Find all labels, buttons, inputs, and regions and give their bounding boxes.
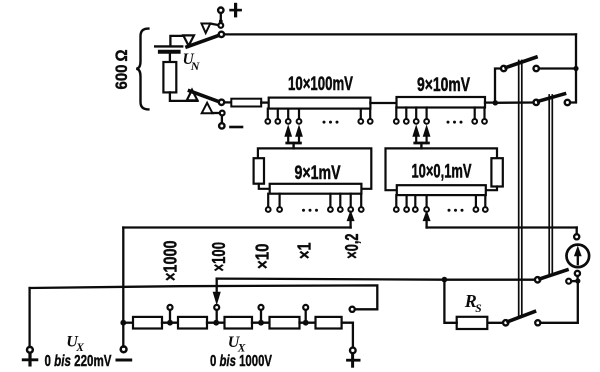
wire bbox=[162, 322, 178, 324]
dots chain C bbox=[302, 209, 318, 212]
wire bbox=[224, 101, 231, 103]
svg-text:10×0,1mV: 10×0,1mV bbox=[412, 162, 472, 183]
resistor chain 9x10mV bbox=[397, 97, 486, 108]
plug triangle top bbox=[202, 24, 211, 34]
wire line A tap to galvo switch bbox=[217, 279, 535, 280]
wire bbox=[495, 69, 501, 103]
battery UN plate long bbox=[155, 45, 182, 47]
wire bbox=[485, 101, 495, 103]
label 10x100mV bbox=[288, 73, 353, 95]
node plus terminal 220mV bbox=[27, 347, 33, 353]
battery UN plate short bbox=[160, 50, 179, 54]
label UN bbox=[183, 51, 201, 73]
label x0,2 bbox=[342, 234, 362, 259]
node S3 contact bbox=[534, 66, 539, 71]
label 10x0,1mV bbox=[412, 162, 472, 183]
label 9x1mV bbox=[295, 163, 341, 184]
resistor frame2 bbox=[491, 158, 502, 186]
label x1 bbox=[295, 243, 315, 260]
wire bbox=[211, 24, 219, 25]
svg-text:0 bis 1000V: 0 bis 1000V bbox=[210, 353, 272, 370]
junction bbox=[303, 320, 309, 326]
wire bbox=[252, 322, 270, 324]
svg-text:×10: ×10 bbox=[253, 244, 273, 270]
plus label top bbox=[231, 9, 241, 12]
plug triangle battery bottom bbox=[187, 90, 198, 101]
svg-text:N: N bbox=[190, 59, 201, 73]
minus label bottom bbox=[117, 359, 131, 362]
switch S4 blade bbox=[539, 94, 565, 101]
wire bbox=[207, 322, 225, 324]
switch S1 blade bbox=[187, 36, 218, 47]
plus label 220mV bbox=[23, 358, 37, 361]
mechanical rod right bbox=[548, 95, 550, 275]
switch S6 blade RS bbox=[508, 312, 535, 322]
switch S6 pivot bbox=[503, 320, 508, 325]
switch S5 pivot bbox=[535, 277, 540, 282]
node + terminal (top) bbox=[218, 8, 223, 13]
tap x1000 bbox=[169, 310, 171, 320]
svg-text:S: S bbox=[475, 303, 481, 315]
node galvanometer bottom bbox=[575, 271, 580, 276]
dots chain D bbox=[448, 209, 464, 212]
wiper arrow chain D bbox=[425, 220, 427, 228]
wiper arrows chain A bbox=[287, 131, 289, 144]
switch S1 pivot bbox=[219, 32, 224, 37]
node galvanometer top bbox=[574, 234, 579, 239]
resistor chain 9x1mV bbox=[270, 184, 362, 194]
node plug contact top bbox=[218, 23, 223, 28]
resistor D2 bbox=[178, 317, 207, 329]
wire galvo down to RS switch bbox=[540, 281, 577, 323]
junction bbox=[575, 278, 580, 283]
tap x1 bbox=[305, 310, 307, 320]
switch S3 blade bbox=[506, 57, 536, 67]
junction chain left bbox=[120, 320, 126, 326]
svg-text:0 bis 220mV: 0 bis 220mV bbox=[45, 353, 112, 370]
plug triangle bottom minus bbox=[202, 103, 213, 113]
minus label bbox=[231, 126, 243, 129]
wire bbox=[539, 67, 576, 69]
node galvo switch contact bbox=[566, 279, 571, 284]
wire bbox=[495, 101, 533, 104]
resistor chain 10x100mV bbox=[269, 98, 371, 109]
resistor RS bbox=[457, 317, 488, 329]
resistor D1 bbox=[133, 317, 162, 329]
switch S2 blade bbox=[190, 91, 219, 102]
wire top rail bbox=[224, 33, 576, 35]
wire bbox=[300, 322, 316, 324]
wire right top bbox=[570, 34, 576, 102]
wire bbox=[170, 92, 198, 101]
svg-text:9×10mV: 9×10mV bbox=[417, 75, 470, 96]
wire to galvanometer bbox=[576, 228, 578, 234]
node S4 contact bbox=[565, 100, 570, 105]
wire bbox=[571, 280, 575, 282]
junction bbox=[219, 19, 223, 23]
plus label 1000V bbox=[348, 359, 360, 362]
dots chain B bbox=[447, 121, 463, 124]
junction bbox=[493, 100, 498, 105]
taps chain A bbox=[268, 109, 370, 119]
svg-text:10×100mV: 10×100mV bbox=[288, 73, 353, 95]
node minus terminal bbox=[219, 123, 224, 128]
label UX 220mV bbox=[45, 333, 112, 370]
wire bbox=[28, 288, 30, 347]
wiper arrows chain B bbox=[415, 131, 417, 144]
line B input plus wire bbox=[30, 285, 378, 309]
svg-text:×0,2: ×0,2 bbox=[342, 234, 362, 259]
label x10 bbox=[253, 244, 273, 270]
junction bbox=[442, 277, 448, 283]
taps chain B bbox=[396, 108, 484, 119]
resistor frame1 bbox=[254, 158, 264, 184]
resistor D5 bbox=[316, 317, 342, 329]
wire bbox=[220, 21, 222, 23]
taps chain C bbox=[268, 194, 361, 207]
node minus terminal bbox=[121, 346, 127, 352]
mechanical rod left bbox=[518, 61, 520, 318]
galvanometer G bbox=[567, 245, 590, 268]
taps chain D bbox=[396, 195, 485, 206]
switch S5 blade galvo bbox=[540, 270, 567, 279]
brace 600 ohm bbox=[136, 29, 148, 110]
junction bbox=[573, 66, 578, 71]
compensation wire left segment bbox=[123, 226, 350, 228]
resistor R1 bbox=[231, 99, 261, 107]
switch S3 pivot bbox=[501, 66, 506, 71]
junction bbox=[258, 320, 264, 326]
label RS bbox=[464, 291, 482, 315]
resistor D4 bbox=[270, 317, 300, 329]
wire bbox=[220, 13, 222, 19]
label 600 ohm rotated bbox=[112, 50, 131, 90]
wire bbox=[444, 280, 456, 323]
node plus terminal 1000V bbox=[350, 348, 356, 354]
plug triangle battery top bbox=[183, 35, 194, 45]
node RS switch contact bbox=[535, 320, 540, 325]
svg-text:9×1mV: 9×1mV bbox=[295, 163, 341, 184]
junction bbox=[213, 320, 219, 326]
wire bbox=[261, 101, 269, 103]
wire bbox=[342, 323, 353, 348]
svg-text:600 Ω: 600 Ω bbox=[112, 50, 131, 90]
range selector arrow bbox=[216, 279, 218, 295]
wire bbox=[487, 322, 503, 324]
wire bbox=[169, 52, 171, 62]
dots chain A bbox=[323, 121, 339, 124]
brush frame 1 bbox=[258, 148, 371, 188]
wire bbox=[170, 36, 183, 45]
label x100 bbox=[209, 242, 229, 272]
wire bbox=[259, 184, 270, 189]
svg-text:×1: ×1 bbox=[295, 243, 315, 260]
tap x100 bbox=[216, 310, 218, 320]
svg-text:×100: ×100 bbox=[209, 242, 229, 272]
node plug contact bottom bbox=[220, 111, 225, 116]
svg-text:×1000: ×1000 bbox=[161, 241, 181, 282]
wire bbox=[486, 187, 497, 191]
resistor D3 bbox=[225, 317, 253, 329]
divider chain wire bbox=[126, 322, 134, 324]
resistor chain 10x0,1mV bbox=[397, 185, 486, 195]
brush frame 2 bbox=[386, 148, 498, 190]
label 9x10mV bbox=[417, 75, 470, 96]
label UX 1000V bbox=[210, 334, 272, 370]
resistor RN (600 ohm) bbox=[163, 62, 176, 92]
wire minus rail down bbox=[122, 228, 124, 347]
wire bbox=[370, 102, 396, 104]
switch S4 pivot bbox=[534, 100, 539, 105]
label x1000 bbox=[161, 241, 181, 282]
wiper arrow chain C bbox=[349, 220, 351, 228]
junction bbox=[167, 320, 173, 326]
switch S2 pivot bbox=[219, 100, 224, 105]
compensation wire right segment bbox=[427, 226, 577, 228]
wire bbox=[576, 276, 578, 279]
wire bbox=[213, 112, 220, 114]
node x0,2 contact bbox=[350, 307, 355, 312]
wire bbox=[221, 116, 223, 124]
tap x10 bbox=[260, 310, 262, 320]
